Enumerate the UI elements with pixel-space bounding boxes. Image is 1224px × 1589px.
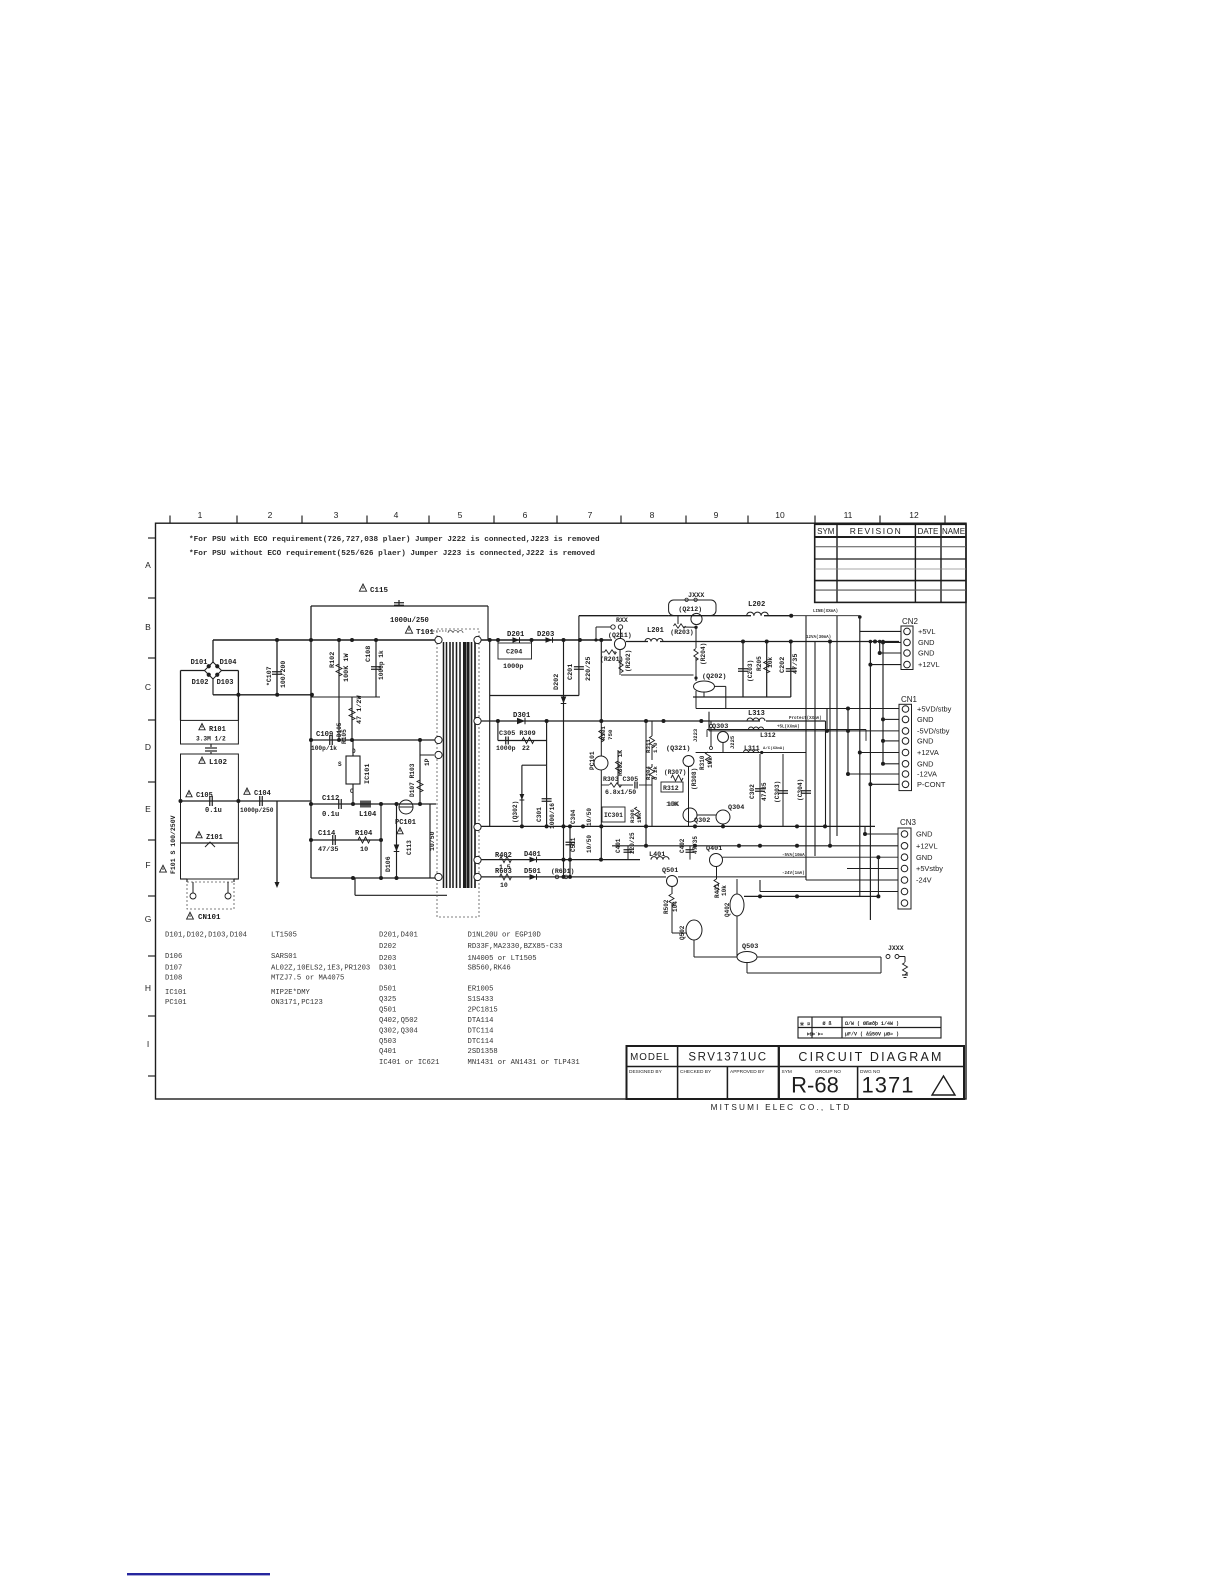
svg-text:L201: L201	[647, 627, 664, 635]
svg-text:IC401 or IC621: IC401 or IC621	[379, 1059, 439, 1067]
svg-text:C302: C302	[749, 784, 756, 799]
svg-text:DTC114: DTC114	[468, 1027, 494, 1035]
svg-text:Protect(XXmA): Protect(XXmA)	[789, 716, 822, 721]
svg-text:T101: T101	[416, 629, 435, 637]
svg-text:IC301: IC301	[604, 812, 623, 819]
svg-text:R205: R205	[756, 656, 763, 671]
svg-text:P-CONT: P-CONT	[917, 780, 946, 789]
svg-text:SB560,RK46: SB560,RK46	[468, 965, 511, 973]
svg-text:8: 8	[650, 510, 655, 520]
svg-text:+5L(XXmA): +5L(XXmA)	[777, 725, 800, 730]
svg-text:D105: D105	[336, 722, 343, 737]
svg-text:(R601): (R601)	[551, 868, 574, 875]
svg-text:SYM: SYM	[817, 527, 835, 536]
svg-text:3: 3	[334, 510, 339, 520]
svg-text:D104: D104	[220, 659, 237, 667]
svg-text:9: 9	[714, 510, 719, 520]
svg-text:J223: J223	[692, 728, 699, 742]
svg-text:JXXX: JXXX	[888, 945, 904, 952]
svg-text:4: 4	[394, 510, 399, 520]
svg-text:MN1431 or AN1431 or TLP431: MN1431 or AN1431 or TLP431	[468, 1059, 580, 1067]
svg-text:AL02Z,10ELS2,1E3,PR1203: AL02Z,10ELS2,1E3,PR1203	[271, 965, 370, 973]
svg-text:R310: R310	[699, 755, 706, 770]
svg-text:I: I	[147, 1039, 149, 1049]
svg-text:D1NL20U or EGP10D: D1NL20U or EGP10D	[468, 931, 541, 939]
svg-text:D101: D101	[191, 659, 208, 667]
svg-text:12: 12	[909, 510, 919, 520]
svg-text:D102: D102	[192, 679, 209, 687]
svg-text:C113: C113	[406, 840, 413, 855]
svg-text:J225: J225	[729, 735, 736, 749]
svg-text:1000p/250: 1000p/250	[240, 807, 274, 814]
svg-text:(R203): (R203)	[670, 629, 693, 636]
svg-text:(C304): (C304)	[797, 779, 804, 801]
svg-text:D202: D202	[379, 943, 396, 951]
svg-text:R312: R312	[663, 785, 679, 792]
svg-text:D301: D301	[513, 712, 531, 720]
svg-text:GND: GND	[917, 715, 933, 724]
svg-text:0.1u: 0.1u	[322, 811, 339, 819]
svg-text:C108: C108	[365, 646, 373, 662]
svg-text:C: C	[145, 682, 151, 692]
svg-text:D201: D201	[507, 631, 525, 639]
svg-text:Q503: Q503	[379, 1038, 396, 1046]
svg-text:A/C(XXmA): A/C(XXmA)	[763, 746, 785, 751]
svg-text:CN3: CN3	[900, 818, 917, 827]
svg-text:D106: D106	[165, 953, 182, 961]
svg-text:Z101: Z101	[206, 834, 223, 842]
svg-text:L313: L313	[748, 710, 765, 718]
svg-text:(C303): (C303)	[774, 781, 781, 803]
svg-text:-5VD/stby: -5VD/stby	[917, 727, 950, 736]
svg-text:C305 R309: C305 R309	[499, 730, 536, 738]
svg-text:6: 6	[523, 510, 528, 520]
svg-text:D201,D401: D201,D401	[379, 931, 418, 939]
svg-text:(R308): (R308)	[691, 768, 698, 790]
svg-text:C304: C304	[570, 809, 577, 824]
svg-text:F101 S 100/250V: F101 S 100/250V	[170, 815, 177, 874]
svg-text:47 1/2W: 47 1/2W	[356, 695, 364, 724]
svg-text:LINE(XXmA): LINE(XXmA)	[813, 609, 838, 614]
svg-text:DESIGNED BY: DESIGNED BY	[629, 1069, 663, 1075]
svg-text:GND: GND	[917, 737, 933, 746]
svg-text:-24V: -24V	[916, 876, 932, 885]
svg-text:1371: 1371	[862, 1073, 915, 1098]
svg-text:10k: 10k	[767, 657, 774, 668]
svg-text:R102: R102	[329, 652, 337, 668]
svg-text:A: A	[145, 560, 151, 570]
svg-text:ER1005: ER1005	[468, 986, 494, 994]
svg-text:ON3171,PC123: ON3171,PC123	[271, 999, 323, 1007]
svg-text:C204: C204	[506, 649, 522, 657]
svg-text:D203: D203	[379, 955, 396, 963]
svg-text:2PC1815: 2PC1815	[468, 1007, 498, 1015]
svg-text:5: 5	[458, 510, 463, 520]
svg-text:R306: R306	[629, 809, 636, 823]
svg-text:PC101: PC101	[165, 999, 187, 1007]
svg-text:10K: 10K	[666, 801, 679, 809]
svg-text:1000p 1k: 1000p 1k	[378, 650, 385, 680]
svg-text:DTC114: DTC114	[468, 1038, 494, 1046]
svg-text:Q501: Q501	[379, 1007, 396, 1015]
svg-text:D106: D106	[385, 856, 392, 872]
svg-text:CN2: CN2	[902, 617, 919, 626]
svg-text:L312: L312	[760, 732, 776, 739]
svg-text:-24V(1mA): -24V(1mA)	[782, 871, 805, 876]
svg-text:Ω/W ( Øßæðþ 1/4W ): Ω/W ( Øßæðþ 1/4W )	[845, 1020, 899, 1027]
svg-text:CN101: CN101	[198, 914, 221, 922]
svg-text:+5VD/stby: +5VD/stby	[917, 705, 952, 714]
svg-text:ÞÐÞ´Þ»: ÞÐÞ´Þ»	[807, 1032, 824, 1038]
svg-text:R402: R402	[495, 852, 512, 860]
svg-text:(Q202): (Q202)	[702, 673, 726, 681]
svg-text:D103: D103	[217, 679, 234, 687]
svg-text:10/50: 10/50	[586, 835, 593, 853]
svg-text:2: 2	[268, 510, 273, 520]
svg-text:PC101: PC101	[395, 819, 416, 827]
svg-text:220/25: 220/25	[585, 657, 593, 681]
svg-text:Q502: Q502	[679, 925, 686, 940]
svg-text:RXX: RXX	[616, 617, 628, 624]
svg-text:47/35: 47/35	[318, 846, 338, 854]
svg-text:GND: GND	[918, 649, 934, 658]
svg-text:※ ¤: ※ ¤	[800, 1021, 810, 1028]
svg-text:B: B	[145, 622, 151, 632]
svg-text:47/35: 47/35	[792, 654, 800, 674]
svg-text:C301: C301	[536, 807, 543, 822]
svg-text:S1S433: S1S433	[468, 996, 494, 1004]
svg-text:11: 11	[844, 510, 853, 520]
svg-text:D401: D401	[524, 851, 541, 859]
svg-text:1000p: 1000p	[503, 663, 523, 671]
svg-text:D202: D202	[553, 674, 561, 690]
svg-text:(R201): (R201)	[600, 656, 623, 663]
svg-text:Q501: Q501	[662, 867, 678, 875]
svg-text:R303 C305: R303 C305	[603, 776, 638, 783]
svg-text:1N4005 or LT1505: 1N4005 or LT1505	[468, 955, 537, 963]
svg-text:750: 750	[607, 729, 614, 740]
svg-text:2SD1358: 2SD1358	[468, 1048, 498, 1056]
svg-text:D501: D501	[379, 986, 396, 994]
svg-text:F: F	[145, 860, 150, 870]
svg-text:12VA(30mA): 12VA(30mA)	[806, 635, 831, 640]
svg-text:L202: L202	[748, 601, 765, 609]
svg-text:APPROVED BY: APPROVED BY	[730, 1069, 765, 1075]
svg-text:-12VA: -12VA	[917, 770, 937, 779]
svg-text:10/50: 10/50	[586, 808, 593, 826]
svg-text:D101,D102,D103,D104: D101,D102,D103,D104	[165, 931, 247, 939]
svg-text:L311: L311	[744, 745, 760, 752]
svg-text:(C203): (C203)	[747, 660, 754, 682]
svg-text:22: 22	[522, 745, 530, 752]
svg-text:L102: L102	[209, 759, 228, 767]
svg-text:L104: L104	[359, 811, 377, 819]
svg-text:C112: C112	[322, 795, 339, 803]
svg-text:0.1u: 0.1u	[205, 807, 222, 815]
svg-text:D501: D501	[524, 868, 541, 876]
svg-text:C115: C115	[370, 587, 389, 595]
svg-text:CIRCUIT DIAGRAM: CIRCUIT DIAGRAM	[798, 1050, 943, 1064]
svg-text:1000u/250: 1000u/250	[390, 617, 429, 625]
svg-text:220/25: 220/25	[629, 832, 636, 854]
svg-text:R603: R603	[495, 868, 512, 876]
svg-text:D108: D108	[165, 975, 182, 983]
svg-text:R101: R101	[209, 726, 226, 734]
svg-text:6.8x1/50: 6.8x1/50	[605, 789, 636, 796]
svg-text:MIP2E*DMY: MIP2E*DMY	[271, 989, 311, 997]
svg-text:1: 1	[198, 510, 203, 520]
svg-text:SARS01: SARS01	[271, 953, 297, 961]
svg-text:Q402,Q502: Q402,Q502	[379, 1017, 418, 1025]
svg-text:*C107: *C107	[266, 666, 273, 686]
svg-text:+12VL: +12VL	[918, 660, 940, 669]
svg-text:MTZJ7.5 or MA4075: MTZJ7.5 or MA4075	[271, 975, 344, 983]
svg-text:C202: C202	[779, 657, 787, 673]
svg-text:GND: GND	[917, 759, 933, 768]
svg-text:MODEL: MODEL	[630, 1052, 670, 1063]
svg-text:+12VL: +12VL	[916, 841, 938, 850]
svg-text:E: E	[145, 804, 151, 814]
svg-text:1P: 1P	[424, 758, 431, 766]
svg-text:104: 104	[672, 901, 679, 912]
svg-text:DATE: DATE	[918, 527, 939, 536]
svg-text:C109: C109	[316, 731, 333, 739]
svg-text:R-68: R-68	[791, 1073, 839, 1098]
svg-text:(R307): (R307)	[664, 769, 686, 776]
svg-text:RD33F,MA2330,BZX85-C33: RD33F,MA2330,BZX85-C33	[468, 943, 563, 951]
svg-text:GND: GND	[916, 830, 932, 839]
svg-text:CHECKED BY: CHECKED BY	[680, 1069, 712, 1075]
svg-text:C201: C201	[567, 664, 575, 680]
svg-text:REVISION: REVISION	[850, 526, 903, 536]
svg-text:*For PSU with ECO requirement(: *For PSU with ECO requirement(726,727,03…	[189, 536, 600, 544]
svg-text:S: S	[338, 761, 342, 768]
svg-text:Q503: Q503	[742, 943, 758, 951]
svg-text:DTA114: DTA114	[468, 1017, 494, 1025]
svg-text:100/200: 100/200	[280, 661, 287, 688]
svg-text:10: 10	[775, 510, 785, 520]
svg-text:47/35: 47/35	[761, 782, 768, 801]
svg-text:Ø ß: Ø ß	[822, 1020, 831, 1027]
svg-text:NAME: NAME	[942, 527, 965, 536]
svg-text:GND: GND	[916, 853, 932, 862]
svg-text:PC101: PC101	[589, 751, 596, 770]
svg-text:Q401: Q401	[379, 1048, 396, 1056]
svg-text:+5Vstby: +5Vstby	[916, 864, 943, 873]
svg-text:10: 10	[360, 846, 368, 854]
svg-text:(Q302): (Q302)	[512, 801, 519, 823]
svg-text:Q302,Q304: Q302,Q304	[379, 1027, 418, 1035]
svg-text:GND: GND	[918, 638, 934, 647]
svg-text:D107: D107	[165, 965, 182, 973]
svg-text:1000p: 1000p	[496, 745, 516, 752]
svg-text:(Q321): (Q321)	[666, 745, 690, 753]
svg-text:+12VA: +12VA	[917, 748, 939, 757]
svg-text:IC101: IC101	[364, 764, 372, 784]
svg-text:(R202): (R202)	[625, 650, 632, 672]
svg-text:C105: C105	[196, 792, 213, 800]
svg-text:MITSUMI ELEC CO., LTD: MITSUMI ELEC CO., LTD	[711, 1103, 852, 1112]
svg-text:D: D	[352, 748, 356, 755]
svg-text:1000/16: 1000/16	[549, 803, 556, 829]
svg-text:+5VL: +5VL	[918, 627, 935, 636]
svg-text:Q304: Q304	[728, 804, 744, 812]
svg-text:100p/1k: 100p/1k	[311, 745, 337, 752]
svg-text:10k: 10k	[721, 885, 728, 896]
svg-text:(Q212): (Q212)	[678, 606, 702, 613]
svg-text:CN1: CN1	[901, 695, 918, 704]
svg-text:Q325: Q325	[379, 996, 396, 1004]
svg-text:LT1505: LT1505	[271, 931, 297, 939]
svg-text:3.3M 1/2: 3.3M 1/2	[196, 736, 226, 743]
svg-text:G: G	[145, 914, 152, 924]
svg-text:R104: R104	[355, 830, 373, 838]
svg-text:H: H	[145, 983, 151, 993]
svg-text:IC101: IC101	[165, 989, 187, 997]
svg-text:D: D	[145, 742, 151, 752]
svg-text:D107 R103: D107 R103	[409, 763, 416, 797]
svg-text:10: 10	[500, 882, 508, 889]
svg-text:100K 1W: 100K 1W	[343, 653, 351, 682]
svg-text:7: 7	[588, 510, 593, 520]
svg-text:SRV1371UC: SRV1371UC	[688, 1052, 767, 1064]
svg-text:*For PSU without ECO requireme: *For PSU without ECO requirement(525/626…	[189, 550, 595, 558]
svg-text:(R204): (R204)	[700, 643, 707, 665]
svg-text:D301: D301	[379, 965, 396, 973]
svg-text:µF/V ( å§50V µØ» ): µF/V ( å§50V µØ» )	[845, 1031, 899, 1038]
